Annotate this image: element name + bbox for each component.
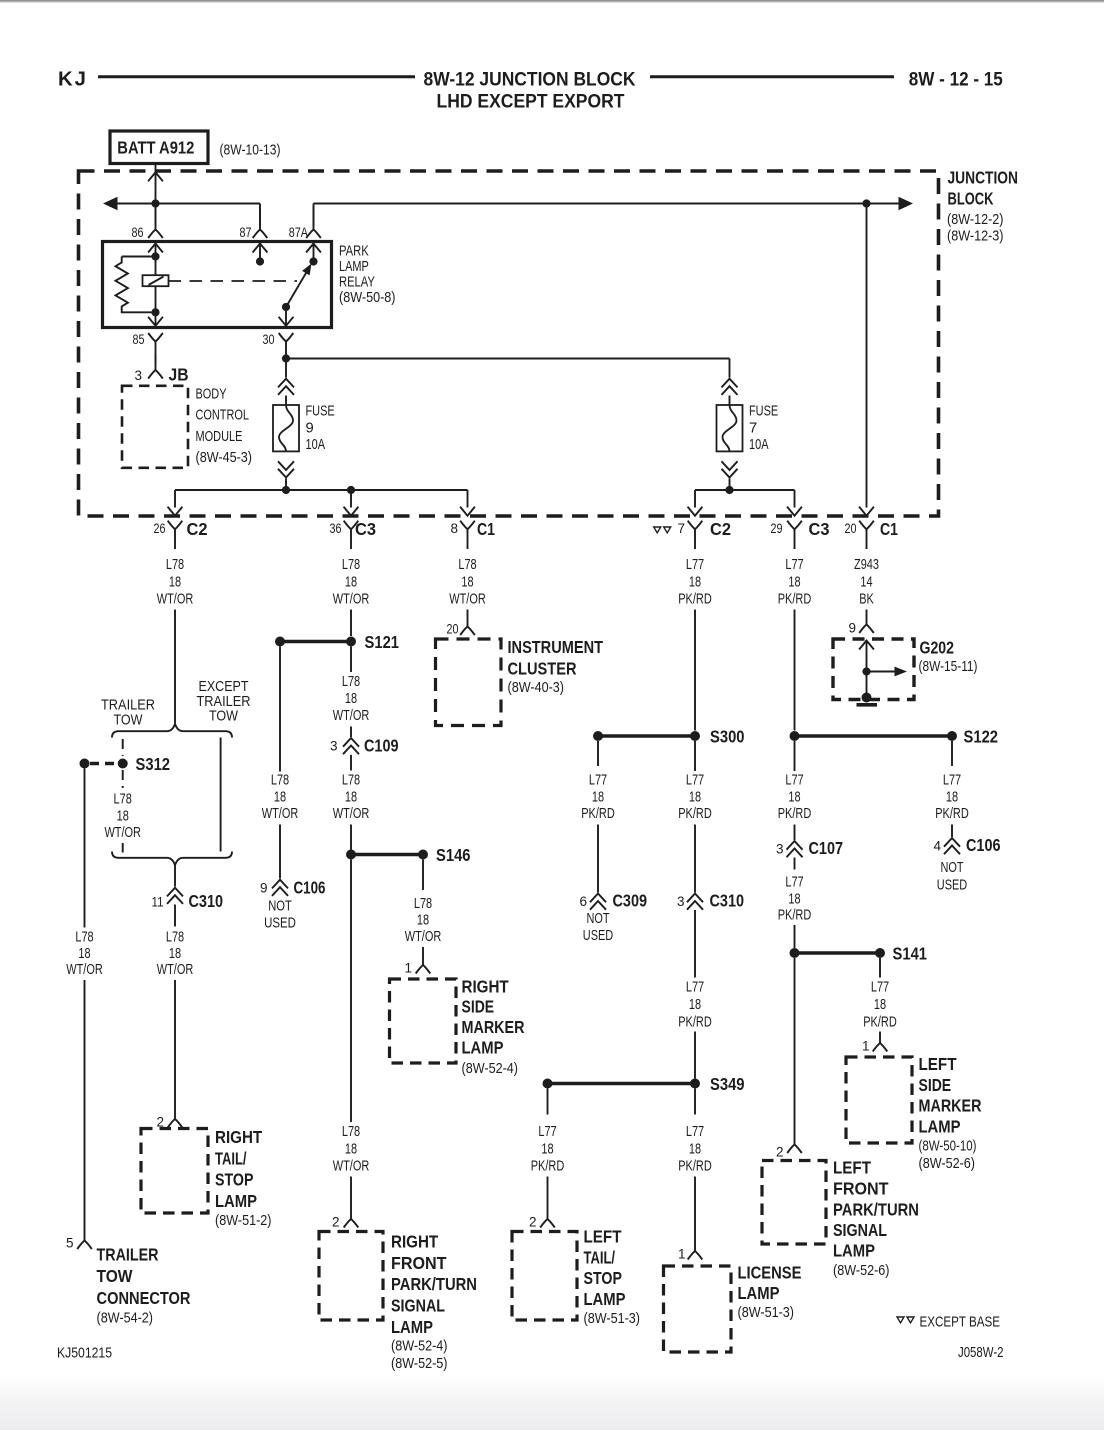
splice S121 right dot bbox=[346, 637, 356, 647]
svg-text:MARKER: MARKER bbox=[919, 1096, 982, 1116]
svg-text:8W - 12 - 15: 8W - 12 - 15 bbox=[909, 68, 1003, 90]
arrow into C1-20 bbox=[859, 507, 874, 516]
header rule right bbox=[650, 75, 894, 78]
svg-text:L77: L77 bbox=[785, 875, 803, 891]
splice S300 left dot bbox=[593, 731, 603, 741]
svg-text:WT/OR: WT/OR bbox=[104, 825, 141, 841]
wire BATT A912 to relay pin 86 bbox=[155, 164, 157, 227]
right distribution bus bbox=[695, 489, 795, 491]
wire C2-7 to S300 bbox=[694, 610, 696, 731]
svg-text:J058W-2: J058W-2 bbox=[958, 1345, 1004, 1361]
terminal license pin 1 bbox=[694, 1246, 696, 1251]
svg-text:PK/RD: PK/RD bbox=[581, 806, 615, 822]
svg-text:(8W-40-3): (8W-40-3) bbox=[508, 680, 565, 696]
inline connector C106 pin 4 bbox=[944, 838, 960, 847]
svg-text:(8W-52-6): (8W-52-6) bbox=[833, 1263, 890, 1279]
terminal left side marker pin 1 bbox=[879, 1039, 881, 1043]
svg-text:LHD EXCEPT EXPORT: LHD EXCEPT EXPORT bbox=[437, 90, 625, 112]
svg-text:S121: S121 bbox=[365, 632, 400, 652]
left front park/turn signal lamp box bbox=[762, 1161, 826, 1245]
svg-text:C1: C1 bbox=[880, 519, 898, 539]
relay coil wire bbox=[155, 257, 157, 313]
battery feed box BATT A912 bbox=[110, 131, 208, 164]
feed arrow right (to 8W-12-3) bbox=[899, 197, 914, 210]
wire S121 left branch down bbox=[279, 647, 281, 772]
relay pin 87A dot bbox=[309, 257, 317, 265]
splice S146 link bbox=[351, 853, 423, 856]
svg-text:PK/RD: PK/RD bbox=[678, 806, 712, 822]
svg-text:C109: C109 bbox=[364, 736, 399, 756]
splice S349 link bbox=[548, 1082, 696, 1085]
relay terminal 87A bbox=[313, 207, 315, 230]
svg-text:C2: C2 bbox=[710, 519, 731, 539]
svg-text:(8W-51-3): (8W-51-3) bbox=[584, 1311, 641, 1327]
svg-text:INSTRUMENT: INSTRUMENT bbox=[508, 637, 604, 657]
svg-text:86: 86 bbox=[132, 225, 144, 240]
G202 junction dot bbox=[862, 667, 870, 675]
svg-text:1: 1 bbox=[678, 1247, 686, 1262]
svg-text:9: 9 bbox=[848, 621, 856, 636]
wire Z943 to C1-20 bbox=[866, 204, 868, 508]
splice S121 link bbox=[280, 640, 351, 643]
svg-text:L77: L77 bbox=[785, 773, 803, 789]
wire S141 to left front lamp bbox=[794, 958, 796, 1140]
terminal instrument cluster pin 20 bbox=[467, 623, 469, 627]
relay coil top lead bbox=[122, 256, 156, 258]
svg-text:8W-12 JUNCTION BLOCK: 8W-12 JUNCTION BLOCK bbox=[424, 68, 636, 90]
wire S349 left stub bbox=[547, 1089, 549, 1115]
svg-text:1: 1 bbox=[404, 961, 412, 976]
wire to C106-9 bbox=[279, 825, 281, 879]
svg-text:STOP: STOP bbox=[215, 1170, 254, 1190]
relay switch pivot dot bbox=[282, 303, 290, 311]
wire to S141 bbox=[794, 925, 796, 948]
svg-text:LAMP: LAMP bbox=[833, 1241, 875, 1261]
svg-text:NOT: NOT bbox=[940, 860, 963, 876]
wire feed bus left segment bbox=[116, 203, 260, 205]
arrow into C3-36 bbox=[344, 507, 359, 516]
svg-text:18: 18 bbox=[274, 790, 286, 806]
svg-text:7: 7 bbox=[677, 521, 685, 536]
svg-text:11: 11 bbox=[152, 895, 164, 910]
svg-text:18: 18 bbox=[169, 946, 181, 962]
svg-text:PK/RD: PK/RD bbox=[778, 806, 812, 822]
ground symbol bar bbox=[857, 703, 878, 707]
relay terminal 85 bbox=[148, 333, 163, 342]
svg-text:JUNCTION: JUNCTION bbox=[948, 167, 1019, 187]
junction dot bus at C3 bbox=[347, 486, 355, 494]
svg-text:WT/OR: WT/OR bbox=[66, 962, 103, 978]
svg-text:10A: 10A bbox=[306, 437, 326, 453]
svg-text:TRAILER: TRAILER bbox=[97, 1245, 159, 1265]
svg-text:PK/RD: PK/RD bbox=[678, 592, 712, 608]
svg-text:L77: L77 bbox=[943, 773, 961, 789]
wire trailer-tow branch upper dash bbox=[122, 739, 124, 756]
svg-text:20: 20 bbox=[845, 521, 857, 536]
svg-text:(8W-15-11): (8W-15-11) bbox=[919, 659, 978, 675]
svg-text:(8W-54-2): (8W-54-2) bbox=[97, 1311, 154, 1327]
svg-text:BATT A912: BATT A912 bbox=[117, 138, 194, 158]
svg-text:L77: L77 bbox=[686, 980, 704, 996]
svg-text:10A: 10A bbox=[749, 437, 769, 453]
terminal left tail pin 2 bbox=[547, 1214, 549, 1219]
svg-text:18: 18 bbox=[78, 946, 90, 962]
junction dot at BATT feed bbox=[151, 199, 159, 207]
relay pin 87 stub dot bbox=[256, 257, 264, 265]
svg-text:L77: L77 bbox=[686, 1124, 704, 1140]
svg-text:(8W-52-6): (8W-52-6) bbox=[919, 1156, 976, 1172]
wire down to fuse 7 bbox=[729, 359, 731, 378]
svg-text:BK: BK bbox=[859, 592, 874, 608]
svg-text:3: 3 bbox=[776, 841, 784, 856]
bus drop to C2-7 bbox=[694, 490, 696, 508]
svg-text:LAMP: LAMP bbox=[919, 1116, 961, 1136]
svg-text:PK/RD: PK/RD bbox=[678, 1159, 712, 1175]
svg-text:18: 18 bbox=[788, 575, 800, 591]
relay coil symbol bbox=[143, 275, 169, 286]
svg-text:L77: L77 bbox=[538, 1124, 556, 1140]
terminal right front pin 2 bbox=[350, 1214, 352, 1219]
svg-text:C107: C107 bbox=[809, 838, 844, 858]
wire brace to C310-11 bbox=[174, 866, 176, 887]
svg-text:C1: C1 bbox=[477, 519, 495, 539]
junction block boundary bbox=[79, 171, 939, 516]
svg-text:L78: L78 bbox=[342, 674, 360, 690]
fuse 9 bbox=[273, 405, 299, 451]
svg-text:L77: L77 bbox=[686, 557, 704, 573]
wire fuse 7 to bus bbox=[729, 479, 731, 491]
relay pin 87 arrow bbox=[253, 244, 268, 253]
wire to C310-3 bbox=[694, 825, 696, 893]
svg-text:TRAILER: TRAILER bbox=[101, 698, 155, 714]
svg-text:87: 87 bbox=[240, 225, 252, 240]
svg-text:FUSE: FUSE bbox=[306, 403, 335, 419]
svg-text:C310: C310 bbox=[189, 891, 224, 911]
svg-text:(8W-51-3): (8W-51-3) bbox=[738, 1305, 795, 1321]
svg-text:LAMP: LAMP bbox=[215, 1191, 257, 1211]
svg-text:18: 18 bbox=[788, 790, 800, 806]
wire to right tail lamp bbox=[174, 980, 176, 1111]
svg-text:BODY: BODY bbox=[196, 387, 227, 403]
splice S312 left dot bbox=[80, 759, 90, 769]
svg-text:S122: S122 bbox=[964, 727, 999, 747]
svg-text:MARKER: MARKER bbox=[462, 1017, 525, 1037]
terminal C3 pin 29 bbox=[787, 521, 802, 530]
svg-text:USED: USED bbox=[583, 928, 613, 944]
svg-text:PK/RD: PK/RD bbox=[863, 1015, 897, 1031]
wire S146 down right branch bbox=[422, 860, 424, 891]
svg-text:WT/OR: WT/OR bbox=[157, 962, 194, 978]
svg-text:85: 85 bbox=[133, 332, 145, 347]
svg-text:L78: L78 bbox=[166, 557, 184, 573]
svg-text:L78: L78 bbox=[342, 557, 360, 573]
left side marker lamp box bbox=[846, 1057, 912, 1143]
arrow into C2-7 bbox=[688, 507, 703, 516]
wire to S146 bbox=[350, 825, 352, 855]
wire C2-26 down to brace bbox=[174, 610, 176, 724]
body control module box bbox=[122, 386, 188, 468]
svg-text:PARK: PARK bbox=[339, 244, 369, 260]
svg-text:18: 18 bbox=[946, 790, 958, 806]
instrument cluster box bbox=[436, 639, 502, 726]
wire C3-36 to S121 bbox=[350, 610, 352, 637]
bus corner left bbox=[174, 490, 176, 508]
svg-text:18: 18 bbox=[541, 1142, 553, 1158]
svg-text:WT/OR: WT/OR bbox=[157, 592, 194, 608]
svg-text:(8W-12-3): (8W-12-3) bbox=[947, 229, 1004, 245]
svg-text:WT/OR: WT/OR bbox=[449, 592, 486, 608]
svg-text:SIGNAL: SIGNAL bbox=[833, 1220, 887, 1240]
fuse 7 bbox=[717, 405, 743, 451]
svg-text:LAMP: LAMP bbox=[584, 1289, 626, 1309]
top page edge line bbox=[0, 0, 1104, 2]
svg-text:2: 2 bbox=[529, 1215, 537, 1230]
wire except-trailer-tow branch bbox=[220, 738, 222, 852]
wire C310-11 down bbox=[174, 905, 176, 927]
fuse 9 lower disconnect bbox=[278, 461, 294, 470]
ground G202 box bbox=[833, 639, 914, 700]
svg-text:87A: 87A bbox=[289, 225, 308, 240]
svg-text:L78: L78 bbox=[114, 792, 132, 808]
svg-text:18: 18 bbox=[345, 691, 357, 707]
svg-text:18: 18 bbox=[117, 809, 129, 825]
inline connector C106 pin 9 bbox=[272, 880, 288, 889]
bus drop to C3 bbox=[350, 490, 352, 508]
svg-text:S300: S300 bbox=[710, 727, 745, 747]
terminal right tail lamp pin 2 bbox=[174, 1111, 176, 1120]
relay pin 86 arrow bbox=[148, 244, 163, 253]
right tail/stop lamp box bbox=[141, 1129, 208, 1214]
splice S312 right dot bbox=[118, 759, 128, 769]
svg-text:26: 26 bbox=[154, 521, 166, 536]
wire above bottom brace dash bbox=[122, 843, 124, 853]
relay terminal 87 bbox=[259, 207, 261, 230]
G202 takeoff arrow bbox=[867, 671, 897, 673]
relay coil-to-switch dashed link bbox=[169, 280, 298, 282]
license lamp box bbox=[664, 1266, 732, 1352]
svg-text:29: 29 bbox=[771, 521, 783, 536]
terminal C1 pin 8 bbox=[460, 521, 475, 530]
svg-text:30: 30 bbox=[263, 332, 275, 347]
svg-text:18: 18 bbox=[592, 790, 604, 806]
svg-text:WT/OR: WT/OR bbox=[262, 806, 299, 822]
svg-text:(8W-52-4): (8W-52-4) bbox=[462, 1061, 519, 1077]
svg-text:PK/RD: PK/RD bbox=[678, 1015, 712, 1031]
svg-text:LEFT: LEFT bbox=[919, 1054, 957, 1074]
terminal arrow into BATT at boundary bbox=[148, 172, 163, 181]
svg-text:L78: L78 bbox=[342, 1124, 360, 1140]
svg-text:CONTROL: CONTROL bbox=[196, 408, 250, 424]
svg-text:RIGHT: RIGHT bbox=[462, 977, 509, 997]
wire pin30 to fuse 7 bbox=[286, 358, 730, 360]
splice S349 right dot bbox=[690, 1079, 700, 1089]
junction dot fuse7-bus bbox=[725, 486, 733, 494]
terminal trailer tow pin 5 bbox=[84, 1232, 86, 1241]
svg-text:18: 18 bbox=[788, 892, 800, 908]
svg-text:PK/RD: PK/RD bbox=[531, 1159, 565, 1175]
feed arrow left (to 8W-12-2) bbox=[103, 197, 118, 210]
svg-text:2: 2 bbox=[332, 1215, 340, 1230]
svg-text:RIGHT: RIGHT bbox=[215, 1127, 262, 1147]
svg-text:LEFT: LEFT bbox=[833, 1157, 871, 1177]
splice S141 left dot bbox=[790, 948, 800, 958]
inline connector C310 pin 11 bbox=[167, 888, 183, 897]
svg-text:WT/OR: WT/OR bbox=[333, 806, 370, 822]
svg-text:36: 36 bbox=[330, 521, 342, 536]
wire to S349 bbox=[694, 1032, 696, 1079]
svg-text:TOW: TOW bbox=[114, 712, 143, 728]
svg-text:C3: C3 bbox=[355, 519, 376, 539]
svg-text:L78: L78 bbox=[458, 557, 476, 573]
svg-text:18: 18 bbox=[345, 790, 357, 806]
svg-text:RELAY: RELAY bbox=[339, 275, 375, 291]
svg-text:EXCEPT BASE: EXCEPT BASE bbox=[920, 1315, 1001, 1331]
wire to C109 bbox=[350, 727, 352, 738]
right side marker lamp box bbox=[390, 979, 457, 1063]
except-base markers at C2-7 bbox=[654, 527, 661, 533]
svg-text:3: 3 bbox=[330, 738, 338, 753]
svg-text:3: 3 bbox=[134, 368, 142, 383]
svg-text:18: 18 bbox=[345, 575, 357, 591]
G202 ground dot bbox=[862, 693, 872, 703]
svg-text:FUSE: FUSE bbox=[749, 403, 778, 419]
wire S300 left stub bbox=[597, 741, 599, 766]
svg-text:LAMP: LAMP bbox=[391, 1317, 433, 1337]
svg-text:PARK/TURN: PARK/TURN bbox=[833, 1199, 919, 1219]
svg-text:L77: L77 bbox=[785, 557, 803, 573]
wire fuse 9 to bus bbox=[285, 479, 287, 491]
svg-text:PK/RD: PK/RD bbox=[778, 592, 812, 608]
svg-text:CLUSTER: CLUSTER bbox=[508, 658, 577, 678]
relay terminal 30 bbox=[279, 333, 294, 342]
svg-text:S146: S146 bbox=[436, 845, 471, 865]
svg-text:(8W-12-2): (8W-12-2) bbox=[947, 212, 1004, 228]
svg-text:SIDE: SIDE bbox=[919, 1075, 952, 1095]
svg-text:S141: S141 bbox=[893, 944, 928, 964]
svg-text:18: 18 bbox=[345, 1142, 357, 1158]
wire S312 to trailer tow connector bbox=[84, 769, 86, 928]
svg-text:NOT: NOT bbox=[586, 911, 609, 927]
header rule left bbox=[98, 75, 415, 78]
inline connector C107 pin 3 bbox=[787, 841, 803, 850]
svg-text:LEFT: LEFT bbox=[584, 1226, 622, 1246]
svg-text:STOP: STOP bbox=[584, 1268, 623, 1288]
svg-text:(8W-50-8): (8W-50-8) bbox=[339, 290, 396, 306]
svg-text:LICENSE: LICENSE bbox=[738, 1262, 802, 1282]
svg-text:PK/RD: PK/RD bbox=[935, 806, 969, 822]
bus drop to C1 bbox=[467, 490, 469, 508]
svg-text:FRONT: FRONT bbox=[391, 1253, 447, 1273]
svg-text:18: 18 bbox=[689, 1142, 701, 1158]
svg-text:C310: C310 bbox=[710, 890, 745, 910]
wire S122 right stub bbox=[951, 741, 953, 766]
svg-text:TOW: TOW bbox=[97, 1266, 133, 1286]
svg-text:G202: G202 bbox=[920, 638, 955, 658]
wire S141 right stub bbox=[879, 958, 881, 978]
brace bottom bbox=[112, 852, 232, 866]
relay switch blade bbox=[286, 272, 307, 307]
svg-text:TRAILER: TRAILER bbox=[197, 694, 251, 710]
relay pin 86 junction dot bbox=[151, 252, 159, 260]
wire C310-3 down bbox=[694, 910, 696, 978]
wire into fuse 7 bbox=[729, 396, 731, 406]
terminal right side marker pin 1 bbox=[422, 961, 424, 965]
wire C1-20 to G202 bbox=[866, 610, 868, 621]
svg-text:C106: C106 bbox=[294, 878, 326, 898]
relay pin 87A stub bbox=[313, 242, 315, 262]
relay coil bottom junction dot bbox=[151, 308, 159, 316]
wire to C309 bbox=[597, 825, 599, 893]
splice S141 link bbox=[795, 951, 881, 954]
svg-text:TOW: TOW bbox=[209, 709, 238, 725]
svg-text:WT/OR: WT/OR bbox=[333, 708, 370, 724]
splice S300 right dot bbox=[690, 731, 700, 741]
wire C1-8 to instrument cluster bbox=[467, 610, 469, 623]
wire into fuse 9 bbox=[285, 396, 287, 406]
svg-text:TAIL/: TAIL/ bbox=[584, 1248, 616, 1268]
svg-text:18: 18 bbox=[874, 997, 886, 1013]
svg-text:6: 6 bbox=[579, 894, 587, 909]
splice S141 right dot bbox=[875, 948, 885, 958]
relay pin 85 stub bbox=[155, 312, 157, 327]
wire C109 down bbox=[350, 755, 352, 771]
wire to right front pin 2 bbox=[350, 1177, 352, 1215]
wire to license pin 1 bbox=[694, 1177, 696, 1247]
inline connector C309 pin 6 bbox=[590, 894, 606, 903]
svg-text:(8W-52-5): (8W-52-5) bbox=[391, 1356, 448, 1372]
svg-text:MODULE: MODULE bbox=[196, 429, 243, 445]
svg-text:SIDE: SIDE bbox=[462, 997, 495, 1017]
inline connector C310 pin 3 bbox=[687, 894, 703, 903]
svg-text:RIGHT: RIGHT bbox=[391, 1232, 438, 1252]
terminal C2 pin 7 bbox=[688, 521, 703, 530]
terminal C2 pin 26 bbox=[168, 521, 183, 530]
svg-text:L77: L77 bbox=[871, 980, 889, 996]
svg-text:USED: USED bbox=[264, 915, 296, 931]
wire drop to relay pin 87 bbox=[259, 204, 261, 227]
svg-text:(8W-10-13): (8W-10-13) bbox=[220, 142, 281, 158]
svg-text:LAMP: LAMP bbox=[339, 259, 369, 275]
relay pin 87 stub bbox=[259, 242, 261, 262]
svg-text:7: 7 bbox=[749, 420, 757, 436]
svg-text:C106: C106 bbox=[966, 835, 1001, 855]
wire below S312 dash bbox=[122, 770, 124, 788]
svg-text:9: 9 bbox=[260, 880, 268, 895]
splice S300 link bbox=[598, 734, 695, 737]
svg-text:S349: S349 bbox=[710, 1074, 745, 1094]
left distribution bus bbox=[175, 489, 468, 491]
svg-text:L78: L78 bbox=[271, 773, 289, 789]
splice S122 right dot bbox=[947, 731, 957, 741]
wire S122 down bbox=[794, 741, 796, 771]
svg-text:L78: L78 bbox=[342, 773, 360, 789]
terminal C1 pin 20 bbox=[859, 521, 874, 530]
svg-text:NOT: NOT bbox=[268, 899, 292, 915]
svg-text:FRONT: FRONT bbox=[833, 1179, 889, 1199]
svg-text:18: 18 bbox=[417, 913, 429, 929]
wire to C107 bbox=[794, 825, 796, 841]
relay terminal 86 bbox=[155, 207, 157, 230]
terminal left front pin 2 bbox=[794, 1140, 796, 1145]
fuse 7 lower disconnect bbox=[722, 461, 738, 470]
wire to trailer tow pin 5 bbox=[84, 980, 86, 1232]
svg-text:L78: L78 bbox=[75, 930, 93, 946]
svg-text:L78: L78 bbox=[414, 896, 432, 912]
wire S121 down bbox=[350, 647, 352, 673]
relay pin 30 wire bbox=[285, 307, 287, 328]
brace top bbox=[112, 724, 232, 738]
svg-text:TAIL/: TAIL/ bbox=[215, 1148, 247, 1168]
